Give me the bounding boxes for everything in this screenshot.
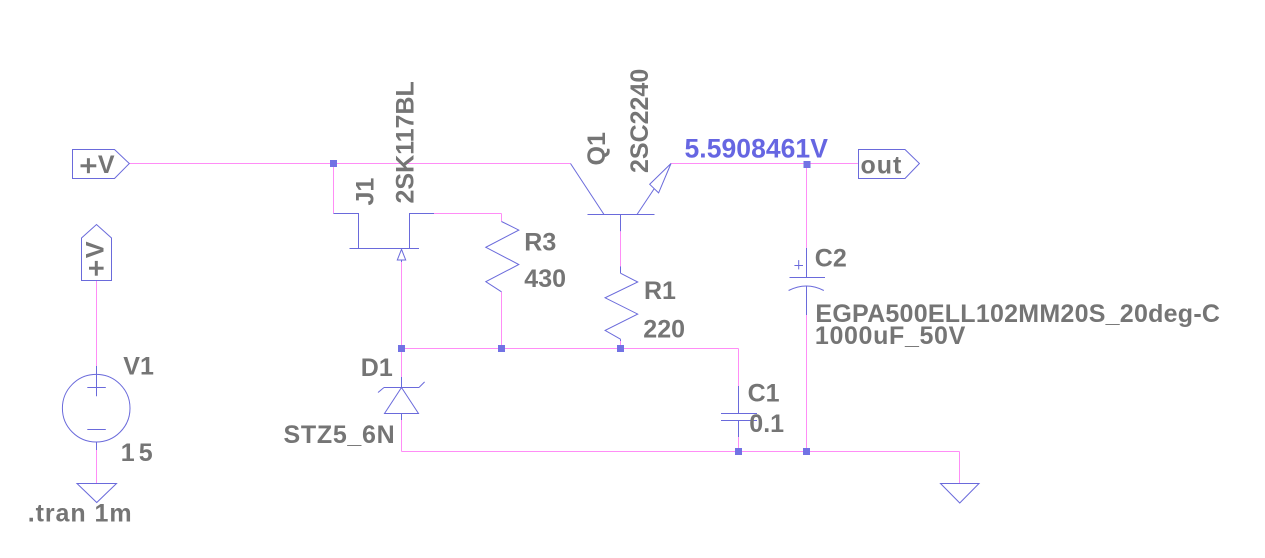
svg-text:D1: D1 (361, 354, 393, 382)
svg-text:.tran 1m: .tran 1m (28, 499, 133, 527)
svg-text:430: 430 (524, 265, 566, 293)
svg-text:J1: J1 (352, 178, 380, 206)
svg-text:R1: R1 (644, 277, 676, 305)
svg-text:V: V (98, 151, 115, 179)
svg-text:1000uF_50V: 1000uF_50V (815, 322, 966, 350)
svg-text:0.1: 0.1 (749, 410, 784, 438)
svg-text:C1: C1 (748, 379, 780, 407)
svg-text:2SC2240: 2SC2240 (626, 69, 654, 173)
svg-text:220: 220 (643, 316, 685, 344)
svg-text:5.5908461V: 5.5908461V (685, 134, 829, 164)
svg-text:C2: C2 (815, 244, 847, 272)
svg-text:V: V (81, 241, 109, 258)
svg-text:STZ5_6N: STZ5_6N (284, 421, 396, 449)
svg-text:out: out (861, 151, 903, 179)
svg-text:15: 15 (121, 439, 157, 467)
svg-text:V1: V1 (123, 353, 154, 381)
svg-text:Q1: Q1 (583, 132, 611, 165)
svg-text:R3: R3 (524, 228, 556, 256)
svg-text:2SK117BL: 2SK117BL (392, 81, 420, 203)
